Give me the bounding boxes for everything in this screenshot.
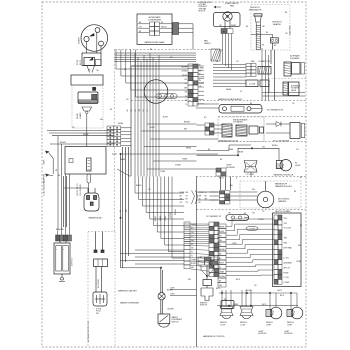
svg-text:BU/GY: BU/GY	[219, 231, 225, 233]
funnel labels left	[180, 192, 190, 204]
svg-text:GY/WH: GY/WH	[258, 219, 264, 221]
svg-text:RY 8A: RY 8A	[76, 59, 79, 65]
wire esp box left	[130, 66, 132, 176]
door connector hatched B	[236, 125, 247, 136]
wire staircase extra links	[184, 224, 209, 244]
svg-text:GY/WH: GY/WH	[175, 165, 181, 167]
wire lt board leads	[96, 232, 103, 251]
label ds3	[220, 322, 227, 326]
evaporator fan motor M1	[214, 12, 241, 27]
svg-text:SW/TCH: SW/TCH	[172, 322, 180, 324]
wire left pair down	[64, 176, 67, 227]
svg-text:L/GHT: L/GHT	[287, 325, 293, 327]
svg-text:BK/WH: BK/WH	[219, 249, 225, 251]
aux pill below	[87, 174, 91, 183]
svg-text:GUARD: GUARD	[79, 112, 82, 119]
label defrost terminator	[248, 7, 262, 11]
svg-text:HEATER: HEATER	[273, 23, 282, 26]
connector fan CN4	[221, 29, 233, 34]
wire lights feeds	[197, 145, 280, 177]
svg-text:VH3: VH3	[284, 243, 288, 245]
label harness-fzf door	[219, 139, 239, 142]
label harness-fz module	[274, 174, 294, 177]
wire water main drop	[120, 154, 138, 268]
svg-text:ALTERNATE: ALTERNATE	[149, 16, 162, 19]
connector CN11 two-col	[209, 222, 219, 277]
label V codes	[89, 70, 100, 72]
label low wires	[170, 288, 175, 296]
compressor pin S	[84, 36, 89, 41]
svg-text:WH/BK: WH/BK	[160, 215, 162, 221]
svg-text:4-WTR VLV: 4-WTR VLV	[72, 257, 74, 266]
svg-text:BK/TL: BK/TL	[280, 295, 285, 297]
damper connector CN7	[220, 191, 230, 204]
svg-text:RELAY: RELAY	[76, 112, 79, 119]
svg-text:TH3: TH3	[284, 238, 288, 240]
condenser fan motor M2	[144, 80, 168, 104]
svg-text:BU/GY: BU/GY	[163, 117, 169, 119]
compressor C1 shell	[81, 25, 108, 52]
wire damper links	[210, 192, 258, 200]
label gn-yl 1	[44, 159, 46, 164]
svg-text:OR/BK: OR/BK	[199, 67, 205, 69]
wire CN8 to board	[226, 219, 274, 276]
label rotated wire codes	[155, 209, 177, 221]
svg-text:MOTOR: MOTOR	[199, 10, 206, 12]
svg-text:YELLOW (DR): YELLOW (DR)	[80, 184, 82, 196]
relay cover dashed box	[72, 85, 103, 128]
label harness-cab	[118, 290, 138, 293]
svg-text:BK 2T: BK 2T	[80, 60, 82, 65]
wire water feed	[121, 268, 163, 293]
hollow heater HR2	[290, 123, 305, 139]
svg-text:OR/BK: OR/BK	[219, 271, 225, 273]
svg-text:A-SENSE: A-SENSE	[284, 261, 293, 264]
label energy switch	[200, 302, 208, 306]
label power cord vertical	[43, 174, 46, 196]
defrost terminator S2	[254, 14, 262, 25]
svg-text:HARNESS-EVAP/HEATER: HARNESS-EVAP/HEATER	[218, 98, 243, 101]
label b3 right	[72, 257, 74, 266]
wire thermistor feeds	[196, 104, 219, 108]
svg-text:WH/BL: WH/BL	[186, 148, 191, 150]
wire - section divider thermistor bottom	[218, 116, 306, 118]
thermistor pill in circle	[156, 94, 177, 99]
label ds6	[287, 322, 294, 326]
wire fan leads down	[223, 34, 232, 71]
wire overload V	[87, 66, 95, 73]
wire pill to plug	[88, 183, 90, 193]
label bu-wh water	[168, 308, 175, 310]
wire - divider fzf door box	[218, 117, 264, 142]
wire evap lower rows	[213, 77, 246, 86]
label mesh codes row	[127, 108, 149, 112]
label bk-tl below board	[278, 290, 283, 292]
ground G2	[59, 274, 65, 282]
svg-text:1-UB/JT-AUB (FZ LT TRIM): 1-UB/JT-AUB (FZ LT TRIM)	[43, 174, 46, 196]
compressor pin M	[95, 28, 100, 33]
wire fan stem	[220, 21, 238, 28]
wire lamp horizontals	[216, 288, 298, 306]
svg-text:EVP FAN: EVP FAN	[284, 247, 293, 250]
wire through verticals	[135, 53, 159, 177]
label bk-wh water	[167, 290, 174, 292]
svg-text:COMP: COMP	[79, 37, 81, 44]
connector CN12	[198, 257, 218, 265]
funnel labels right	[199, 192, 209, 204]
svg-text:HARNESS-FZ MODULE: HARNESS-FZ MODULE	[274, 174, 294, 177]
label CN8 codes	[219, 226, 225, 287]
svg-text:BK WH BK: BK WH BK	[56, 229, 65, 231]
wire CN10-CN11 links	[190, 225, 209, 271]
svg-text:OR/BK: OR/BK	[182, 75, 188, 77]
wire starter down	[86, 114, 88, 147]
label alternate condenser	[148, 16, 162, 22]
note arrow	[214, 6, 222, 8]
label light wires	[238, 147, 266, 154]
wire - outer dashed border	[42, 2, 306, 347]
svg-text:HOUS/NG: HOUS/NG	[284, 333, 293, 335]
label hollow heater	[273, 139, 290, 142]
svg-text:YL: YL	[219, 267, 221, 269]
svg-text:SHIELD: SHIELD	[204, 43, 211, 45]
wire CN6 down	[60, 241, 66, 243]
wire low horizontals2	[170, 290, 197, 296]
lamp1 junction box	[221, 301, 234, 309]
label wire codes evap	[199, 64, 205, 88]
svg-text:HARNESS-FZF DOOR: HARNESS-FZF DOOR	[219, 139, 239, 142]
svg-text:DAMPER: DAMPER	[278, 200, 287, 203]
svg-text:WH/CN: WH/CN	[161, 27, 167, 29]
svg-text:GY/WH: GY/WH	[199, 77, 205, 79]
label jazz fc board	[275, 210, 291, 213]
svg-text:HARNESS-REF BASE: HARNESS-REF BASE	[144, 41, 165, 44]
svg-text:OR/BK: OR/BK	[182, 159, 188, 161]
wire lamp feeds	[222, 290, 297, 310]
label light housings	[258, 331, 293, 335]
label bk left vertical	[56, 168, 58, 171]
svg-text:AF LGT: AF LGT	[284, 266, 291, 269]
svg-text:BK/TL: BK/TL	[262, 304, 267, 306]
svg-text:LT 2W: LT 2W	[240, 325, 245, 327]
starter pin circle	[86, 111, 88, 113]
wire - section divider evap bottom	[131, 100, 306, 102]
svg-text:L/GHT: L/GHT	[266, 325, 272, 327]
ref lamp DS4	[240, 307, 253, 319]
alternate condenser fan box	[137, 14, 172, 44]
svg-text:WH/VT: WH/VT	[219, 262, 224, 264]
label a-freezer vertical	[87, 321, 90, 342]
connector CN8 column	[218, 224, 226, 287]
svg-text:BK/WH: BK/WH	[184, 122, 190, 124]
label COMP	[79, 37, 81, 44]
svg-text:BK/WH: BK/WH	[181, 66, 187, 68]
damper motor M3	[257, 181, 274, 208]
wire horizontals top feed	[115, 53, 197, 61]
label ref connector	[251, 61, 271, 63]
wire - section divider top	[115, 49, 224, 51]
wire lt stems	[96, 267, 102, 293]
svg-text:L1 (V): L1 (V)	[284, 277, 290, 279]
label overload codes	[76, 59, 82, 65]
svg-text:FF THERMISTOR: FF THERMISTOR	[207, 216, 222, 218]
label alternate ice maker	[290, 55, 301, 60]
energy box	[203, 280, 212, 286]
svg-text:ICE MAKER: ICE MAKER	[290, 57, 300, 60]
hollow heater diode	[276, 122, 281, 127]
wire evap right rows	[262, 87, 305, 97]
fz thermistor RT1	[219, 105, 262, 114]
svg-text:BK/WH: BK/WH	[60, 142, 66, 144]
wire - section divider mid vertical dashed	[114, 50, 116, 232]
svg-text:SW/TCH: SW/TCH	[200, 305, 208, 307]
svg-text:1: 1	[56, 249, 58, 250]
connector CN6 stack	[56, 235, 72, 241]
svg-text:DAMPER MODULE: DAMPER MODULE	[275, 185, 292, 188]
ref lamp DS3	[220, 307, 233, 319]
label ds5	[266, 322, 273, 326]
svg-text:WH/BK: WH/BK	[83, 134, 89, 136]
svg-text:WH/BK: WH/BK	[219, 226, 225, 228]
energy switch funnel	[201, 288, 213, 301]
svg-text:GN/YL: GN/YL	[44, 159, 46, 164]
svg-text:W/DEF HTR: W/DEF HTR	[290, 25, 292, 35]
compressor wedge	[89, 33, 95, 37]
door connector hatched A	[222, 124, 232, 137]
label jazz pins	[284, 218, 293, 284]
svg-text:HARNESS-MC: HARNESS-MC	[89, 217, 103, 220]
svg-text:LIGHT: LIGHT	[295, 165, 301, 167]
dispenser lamp DS2	[159, 324, 170, 328]
wire - section divider door bottom	[218, 141, 306, 143]
svg-text:BU/GY: BU/GY	[191, 263, 197, 265]
label CN3 wires	[181, 66, 187, 106]
wire hollow divider	[263, 117, 265, 142]
jazz board pin column	[274, 215, 282, 284]
svg-text:33: 33	[89, 70, 91, 72]
damper dashed box	[240, 181, 301, 208]
label fz thermistor	[267, 110, 284, 112]
wire energy feeds	[201, 265, 213, 288]
aux box B2	[65, 147, 106, 175]
svg-text:CONDENSER: CONDENSER	[148, 19, 162, 21]
label water dispenser switch	[172, 316, 183, 324]
svg-text:HARNESS-CAB HET: HARNESS-CAB HET	[118, 290, 138, 293]
connector CN5b hatched	[258, 67, 271, 75]
wire CN1 drops	[123, 147, 129, 268]
svg-text:CONNECTOR: CONNECTOR	[258, 61, 271, 63]
svg-text:BK/WH: BK/WH	[167, 290, 174, 292]
overload OL1 outer	[82, 53, 101, 66]
label motorized damper	[278, 199, 290, 204]
dispenser switch S3	[158, 314, 170, 324]
jazz fc board U1	[273, 213, 302, 287]
junction boxes low	[246, 80, 269, 87]
label ds4	[240, 322, 247, 326]
wire heater leads	[251, 35, 275, 101]
ground arrow G2	[45, 174, 53, 177]
label fz lt 2w	[247, 174, 255, 176]
svg-text:VIOLET (FZ LT): VIOLET (FZ LT)	[77, 183, 79, 196]
wire CN6 pins	[58, 231, 70, 235]
wire damper left feeds	[197, 192, 219, 200]
label RELAY vertical	[76, 112, 82, 119]
defrost heater HR1	[262, 32, 289, 47]
svg-text:BK/TL: BK/TL	[216, 288, 221, 290]
label wh-bk wire	[60, 134, 89, 144]
svg-text:CLOSE: CLOSE	[249, 84, 256, 86]
label harness-mc	[89, 217, 103, 220]
defrost terminator rod	[256, 25, 260, 49]
svg-text:JAZZ FC BOARD: JAZZ FC BOARD	[275, 210, 291, 213]
overload OL1 inner	[84, 57, 95, 65]
svg-text:YL: YL	[185, 104, 187, 106]
wire diag bottom left	[112, 154, 131, 177]
ground arrow G1	[45, 151, 53, 174]
svg-text:BK/TL: BK/TL	[236, 279, 241, 281]
svg-text:LT 2W: LT 2W	[220, 325, 225, 327]
wire heater drops	[262, 48, 269, 101]
svg-text:FAN: FAN	[230, 5, 234, 8]
note text block	[199, 2, 212, 12]
svg-text:LT (V): LT (V)	[284, 257, 289, 259]
svg-text:CLOSE: CLOSE	[249, 228, 256, 230]
label defrost vert	[285, 12, 292, 35]
svg-text:HOUS/NG: HOUS/NG	[258, 333, 267, 335]
svg-text:GY/WH: GY/WH	[219, 276, 225, 278]
wire ref connector feeds	[213, 65, 246, 74]
label fan shield	[204, 40, 211, 45]
label see alternate	[233, 118, 248, 123]
wire CN1 leads	[121, 128, 131, 146]
wire low horizontals	[120, 250, 184, 264]
svg-text:HARNESS-FF CONTROL: HARNESS-FF CONTROL	[203, 335, 225, 338]
wire CN2 left leads	[138, 24, 150, 33]
connector CN1 grid	[107, 126, 121, 146]
terminal box B1	[71, 75, 103, 85]
power plug P1	[84, 193, 99, 211]
defrost heater dashed box	[251, 5, 290, 51]
wire dashed harness box	[88, 232, 115, 348]
wire hollow feeds	[266, 124, 290, 133]
svg-text:BK/WH: BK/WH	[136, 185, 142, 187]
label CN2 wires	[139, 22, 167, 33]
svg-text:4: 4	[236, 178, 237, 180]
label plug text	[96, 309, 102, 315]
starter trapezoid	[82, 107, 92, 111]
svg-text:BK/TL: BK/TL	[219, 178, 224, 180]
svg-text:BK/TL: BK/TL	[278, 290, 283, 292]
label harness-ref base	[144, 41, 165, 44]
label harness-ff damper	[275, 183, 292, 189]
svg-text:BK/WH: BK/WH	[175, 209, 177, 215]
terminal pin blob	[93, 87, 96, 90]
label evaporator fan	[225, 2, 239, 7]
label harness evap heater	[218, 98, 243, 101]
connector CN5	[246, 64, 256, 77]
node close pill	[246, 226, 258, 230]
svg-text:OR/BK: OR/BK	[238, 151, 244, 153]
wire - section divider module top	[196, 176, 306, 178]
alternate fz water assembly	[283, 82, 299, 96]
svg-text:WH/BK: WH/BK	[199, 83, 205, 85]
wire damper top stubs	[221, 177, 231, 191]
svg-text:BU/WH: BU/WH	[168, 308, 175, 310]
svg-text:FZ THERMISTOR: FZ THERMISTOR	[267, 110, 284, 112]
label alternate fz water	[291, 85, 300, 92]
wire esp box top	[131, 65, 198, 67]
door feed connector	[205, 123, 214, 135]
label harness-ff control	[203, 335, 225, 338]
label CN10 codes	[191, 224, 197, 269]
wire divider ice	[268, 78, 306, 80]
lt pins	[94, 250, 104, 253]
wire staircase bundle left	[135, 177, 184, 259]
wire - section divider below damper	[197, 209, 307, 211]
wire door feeds	[197, 125, 223, 133]
svg-text:SW: SW	[96, 313, 99, 315]
svg-text:T66: T66	[284, 223, 287, 225]
label CN1 drop code	[120, 208, 128, 212]
label terminator bk	[246, 26, 266, 28]
svg-text:F/TAT: F/TAT	[284, 271, 290, 274]
fz light bulb DS1	[276, 160, 291, 171]
wire CN2 right leads	[160, 24, 173, 33]
svg-text:COMP: COMP	[284, 282, 290, 284]
svg-text:TERMINATOR: TERMINATOR	[248, 9, 262, 12]
ref lamp DS6	[287, 307, 303, 319]
wire nested L bundle to CN3	[116, 50, 188, 98]
svg-text:T60: T60	[284, 218, 287, 220]
wire plug stems	[64, 188, 96, 193]
connector CN10 narrow	[184, 222, 190, 269]
lt board B4	[94, 259, 108, 267]
wire CN2 stub marks	[173, 23, 194, 50]
svg-text:HOUSING: HOUSING	[226, 167, 235, 169]
funnel bracket	[192, 191, 198, 205]
label ff thermistor	[207, 216, 222, 218]
wire CN3 right stubs	[198, 66, 204, 104]
overload right lug	[96, 59, 102, 65]
svg-text:ICE MAKER: ICE MAKER	[233, 121, 244, 124]
starter PTC body	[78, 92, 98, 103]
compressor pin C	[99, 41, 104, 46]
svg-text:BU/GY: BU/GY	[155, 215, 157, 221]
fz lamp socket	[244, 161, 257, 173]
wire - main vertical divider	[196, 177, 198, 348]
wire left verticals	[58, 136, 70, 231]
label violet codes vertical	[77, 183, 82, 196]
node junction diamonds	[119, 147, 292, 307]
box switch B3	[54, 243, 70, 274]
svg-text:BK/WH: BK/WH	[246, 290, 252, 292]
label light housing fz	[226, 165, 235, 170]
water valve V1	[158, 293, 165, 314]
svg-text:OR/BK: OR/BK	[191, 259, 197, 261]
svg-text:GY/WH: GY/WH	[170, 212, 172, 218]
label bk-tl top	[219, 178, 237, 180]
fan shield grille	[211, 49, 222, 61]
svg-text:HOLLOW HEATER: HOLLOW HEATER	[273, 139, 290, 142]
label mesh branch codes	[163, 117, 191, 167]
svg-text:BK/WH: BK/WH	[272, 145, 278, 147]
svg-text:A-FREEZER DOOR LT SW: A-FREEZER DOOR LT SW	[87, 321, 90, 342]
label assorted wire codes	[58, 49, 303, 301]
ice maker connector hatched	[284, 62, 291, 76]
door boxes	[249, 126, 264, 134]
ice maker box	[292, 63, 305, 75]
label fz light	[295, 163, 301, 168]
